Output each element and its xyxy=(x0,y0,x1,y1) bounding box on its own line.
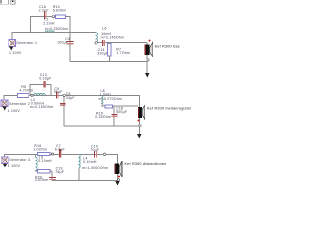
svg-text:1 100V: 1 100V xyxy=(9,51,22,55)
svg-text:1.0mH: 1.0mH xyxy=(100,93,112,97)
svg-text:Generator 3: Generator 3 xyxy=(9,158,30,162)
svg-text:Generator 1: Generator 1 xyxy=(16,41,37,45)
resistor R16 xyxy=(38,152,50,155)
svg-text:0.25Ohm: 0.25Ohm xyxy=(95,115,111,119)
wire: feed1 to speaker xyxy=(97,42,147,44)
svg-text:330µF: 330µF xyxy=(97,51,108,55)
svg-text:Kef R300 mellanregister: Kef R300 mellanregister xyxy=(147,107,192,111)
svg-text:4.7Ohm: 4.7Ohm xyxy=(20,89,34,93)
svg-text:1.7Ohm: 1.7Ohm xyxy=(116,51,130,55)
capacitor C18 xyxy=(112,114,118,117)
capacitor C15 series xyxy=(94,151,97,158)
node circle band3 after R16 xyxy=(52,153,54,155)
ground arrow generator 3 xyxy=(4,164,7,167)
svg-text:L6: L6 xyxy=(102,26,106,30)
generator 2 xyxy=(1,100,8,107)
ground arrow speaker2 xyxy=(137,134,142,138)
wire: L5 elbow to R6 xyxy=(35,169,52,172)
svg-text:70µF: 70µF xyxy=(90,148,99,152)
svg-text:1 100V: 1 100V xyxy=(8,164,21,168)
ground arrow speaker3 xyxy=(115,181,120,186)
node circle band1 loop xyxy=(52,15,54,17)
node circle band2 after R5 xyxy=(31,94,33,96)
capacitor C19 xyxy=(49,177,56,180)
svg-text:2.2mH: 2.2mH xyxy=(43,21,55,25)
capacitor C8 xyxy=(60,103,65,106)
wire: C18 shunt stub xyxy=(113,106,115,126)
svg-text:6.0µF: 6.0µF xyxy=(55,148,65,152)
capacitor C14 xyxy=(102,40,105,46)
ground arrow speaker1 xyxy=(145,73,150,78)
svg-text:100µF: 100µF xyxy=(57,40,68,44)
svg-text:1.0Ohm: 1.0Ohm xyxy=(33,148,47,152)
svg-text:m=1.0000Ohm: m=1.0000Ohm xyxy=(82,166,108,170)
speaker Kef R300 midrange xyxy=(138,105,145,126)
resistor R7 vertical xyxy=(108,44,112,56)
wire: C8 shunt stub xyxy=(63,95,65,125)
svg-text:5.6Ohm: 5.6Ohm xyxy=(53,9,67,13)
wire: rail1 top horizontal xyxy=(12,33,96,40)
svg-text:0.10mH: 0.10mH xyxy=(38,159,52,163)
capacitor C7 xyxy=(59,149,61,158)
svg-text:m=0.250Ohm: m=0.250Ohm xyxy=(45,27,69,31)
svg-text:0.33µF: 0.33µF xyxy=(39,77,51,81)
wire: R7 to bottom rail xyxy=(108,56,110,61)
svg-text:33µF: 33µF xyxy=(66,96,75,100)
capacitor C4 xyxy=(66,41,73,45)
wire: rail2 xyxy=(4,95,139,133)
node circle under L6 xyxy=(95,42,97,44)
inductor L8 vertical xyxy=(101,95,103,106)
wire: L8 elbow to R15 xyxy=(101,105,138,107)
inductor L5 vertical xyxy=(35,154,37,170)
resistor R15 xyxy=(105,105,113,108)
svg-text:0.10mH: 0.10mH xyxy=(83,160,97,164)
capacitor C16 xyxy=(44,12,47,19)
speaker Kef R300 bas xyxy=(145,40,153,57)
inductor L3 xyxy=(34,93,45,95)
svg-text:m=0.150Ohm: m=0.150Ohm xyxy=(30,105,54,109)
ground arrow generator 2 xyxy=(3,106,6,109)
wire: rail1 bottom xyxy=(70,60,147,62)
wire: L4 to bottom rail xyxy=(78,168,80,180)
generator 3 xyxy=(1,157,8,164)
node circle at speaker1 return xyxy=(147,59,149,61)
wire: C19 shunt stub xyxy=(51,171,53,180)
wire: loop band2 (C13 over L3) xyxy=(30,85,51,96)
capacitor C9 xyxy=(56,92,58,99)
ground arrow generator 1 xyxy=(10,46,13,49)
svg-text:Kef R300 bas: Kef R300 bas xyxy=(155,44,180,48)
capacitor C13 xyxy=(43,81,45,87)
svg-text:500µF: 500µF xyxy=(116,110,127,114)
UI spinbox fragment top-left xyxy=(0,0,8,4)
wire: rail3 xyxy=(4,154,117,181)
svg-text:3.0Ohm: 3.0Ohm xyxy=(35,178,49,182)
generator 1 xyxy=(9,40,16,47)
svg-text:Kef R300 diskanttonen: Kef R300 diskanttonen xyxy=(125,162,167,166)
wire: rail3 bottom xyxy=(52,179,118,181)
resistor R5 xyxy=(18,93,29,97)
node circle band2 xyxy=(63,94,65,96)
UI dropdown button top-left xyxy=(10,0,15,4)
wire: rail2 bottom xyxy=(64,125,139,127)
svg-text:m=0.270Ohm: m=0.270Ohm xyxy=(99,97,123,101)
wire: C4 shunt stub (shared with loop right) xyxy=(69,33,71,62)
inductor L1 xyxy=(45,31,54,33)
svg-text:76µF: 76µF xyxy=(55,170,64,174)
inductor L4 vertical shunt xyxy=(79,154,80,168)
svg-text:90µF: 90µF xyxy=(54,90,63,94)
svg-text:2.2µF: 2.2µF xyxy=(39,9,49,13)
speaker Kef R300 tweeter xyxy=(114,161,122,181)
inductor L6 vertical xyxy=(96,33,98,45)
svg-text:1 100V: 1 100V xyxy=(8,109,21,113)
wire: speaker1 drop to ground xyxy=(146,43,148,73)
wire: parallel loop (C16+R10 over L1) xyxy=(31,17,70,33)
svg-text:Generator 2: Generator 2 xyxy=(9,102,30,106)
resistor R6 xyxy=(38,170,51,173)
node circle band3 xyxy=(103,153,106,156)
resistor R10 xyxy=(56,15,66,18)
svg-text:m=2.145Ohm: m=2.145Ohm xyxy=(101,35,125,39)
